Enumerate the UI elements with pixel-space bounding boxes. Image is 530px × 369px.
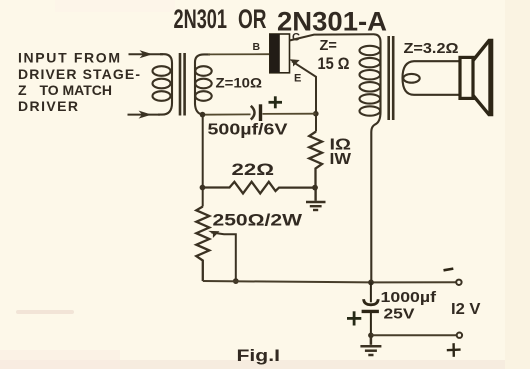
ground GND2 (360, 335, 381, 355)
label + (C2 polarity) (347, 311, 361, 325)
svg-text:Z: Z (18, 82, 27, 98)
capacitor C2 1000uf/25V plates (362, 282, 379, 335)
svg-text:IW: IW (330, 151, 352, 168)
wire base (208, 53, 270, 55)
node bus junction (368, 280, 374, 286)
terminal positive (457, 333, 462, 338)
resistor R2 22 ohm (203, 182, 314, 194)
node wiper junction (233, 278, 239, 284)
capacitor C1 500uf/6V plates (251, 104, 261, 121)
transformer T2 primary winding (360, 34, 381, 282)
svg-text:Z=10Ω: Z=10Ω (216, 74, 263, 90)
faint pencil smudge (16, 310, 74, 314)
node R2 left junction (200, 185, 206, 191)
node R1 bottom junction (312, 185, 318, 191)
svg-text:OR: OR (238, 3, 267, 34)
label 1000uf 25V (381, 289, 438, 322)
wire emitter (290, 60, 316, 132)
transformer T2 secondary winding (403, 61, 460, 95)
node capacitor bottom junction (368, 333, 374, 339)
svg-text:DRIVER: DRIVER (18, 98, 78, 114)
svg-text:1000µf: 1000µf (381, 289, 438, 306)
svg-text:Z=3.2Ω: Z=3.2Ω (404, 40, 459, 57)
label Z= 15 ohm (318, 38, 350, 73)
svg-text:2N301: 2N301 (174, 3, 228, 34)
speaker SP1 (460, 39, 491, 117)
svg-text:22Ω: 22Ω (232, 161, 275, 179)
svg-text:TO MATCH: TO MATCH (40, 82, 113, 98)
title 2N301 OR 2N301-A (174, 3, 388, 37)
wire bypass rail (203, 114, 316, 115)
wire collector (290, 34, 375, 40)
svg-text:B: B (253, 41, 261, 53)
svg-text:Fig.I: Fig.I (237, 347, 281, 365)
transformer T1 primary winding (153, 54, 173, 114)
svg-text:I2 V: I2 V (451, 301, 481, 318)
label + (positive terminal) (447, 343, 461, 357)
transformer T2 core (389, 36, 394, 120)
label + (C1 polarity) (269, 96, 283, 108)
label 1 ohm 1W (330, 136, 352, 168)
input arrow bottom (128, 111, 161, 118)
resistor R1 1 ohm 1W (309, 132, 322, 188)
svg-text:DRIVER STAGE-: DRIVER STAGE- (18, 66, 140, 82)
wiper arrow R3 (209, 231, 236, 281)
potentiometer R3 250 ohm/2W (196, 207, 209, 282)
ground GND1 (306, 188, 326, 210)
svg-text:E: E (294, 73, 301, 85)
input arrow top (129, 51, 164, 58)
node transformer bottom junction (200, 112, 206, 118)
wire bottom bus (203, 281, 456, 282)
transformer T1 secondary winding (195, 54, 212, 114)
terminal negative (456, 280, 461, 285)
svg-text:25V: 25V (384, 305, 415, 322)
node emitter junction (313, 111, 319, 117)
svg-text:250Ω/2W: 250Ω/2W (213, 211, 303, 229)
svg-text:15 Ω: 15 Ω (318, 55, 350, 73)
wire left branch (202, 115, 204, 207)
svg-text:Z=: Z= (320, 38, 337, 54)
label minus (444, 269, 454, 271)
wire to positive terminal (371, 334, 457, 336)
input annotation text (18, 50, 140, 114)
svg-text:INPUT FROM: INPUT FROM (18, 50, 120, 66)
transformer T1 core (180, 53, 185, 116)
svg-text:500µf/6V: 500µf/6V (208, 122, 289, 139)
transistor Q1 2N301 (270, 34, 290, 73)
